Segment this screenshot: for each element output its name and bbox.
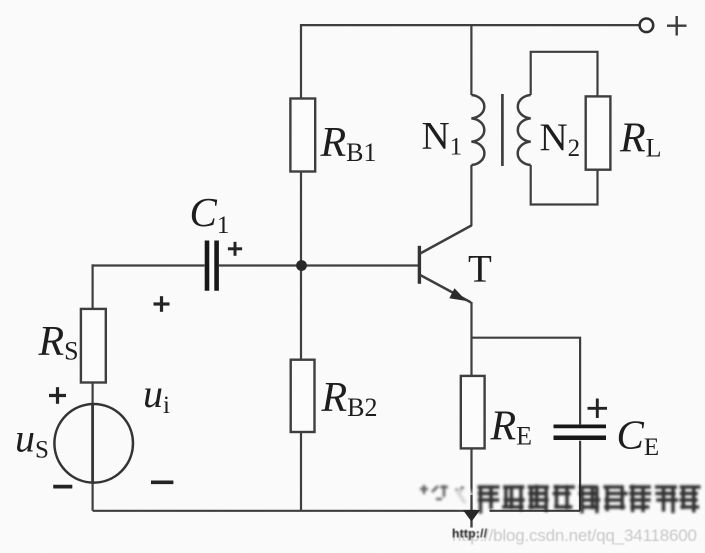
terminal output circle (640, 19, 654, 33)
wire N1 bottom stem to collector (470, 165, 472, 226)
wire RB2 bottom stem (300, 432, 302, 511)
wire emitter down stem (470, 302, 472, 376)
wire N2 loop (531, 52, 598, 205)
transistor T emitter stroke (420, 275, 471, 302)
source uS circle (54, 404, 133, 483)
resistor RB1 (290, 99, 315, 172)
resistor RE (461, 376, 485, 449)
watermark url light (452, 526, 697, 545)
watermark chinese blurred band (420, 485, 701, 514)
ground arrow redraw (463, 510, 480, 522)
transistor T base bar (418, 246, 421, 284)
wire bottom rail right (490, 510, 581, 512)
wire RB1 bottom stem to base node (300, 172, 302, 266)
wire RB2 top stem (300, 266, 302, 360)
transistor T emitter arrow (449, 288, 466, 301)
wire emitter junction to CE (472, 338, 581, 425)
wire top rail (301, 24, 639, 26)
plus sign uS top (49, 387, 66, 404)
transistor T collector stroke (420, 225, 471, 253)
plus sign at C1 (228, 242, 242, 256)
resistor RB2 (291, 360, 315, 432)
plus sign ui top (154, 296, 170, 312)
plus sign at CE (588, 399, 608, 419)
source uS vertical diameter wire (91, 405, 94, 483)
resistor RL (586, 96, 611, 169)
minus sign ui bottom (151, 480, 173, 484)
capacitor CE plates (554, 426, 607, 437)
wire RB1 top stem (300, 24, 302, 99)
ground symbol (463, 510, 480, 522)
wire N1 top stem (470, 24, 472, 95)
ground stem redraw (470, 495, 472, 528)
wire CE bottom stem (579, 441, 581, 511)
transformer core bar (501, 94, 504, 166)
watermark white stamp blob over rail (448, 488, 474, 508)
wire bottom rail left (93, 510, 477, 512)
resistor RS (81, 309, 106, 383)
plus sign at output terminal (667, 16, 687, 36)
wire C1 right segment to base (219, 264, 419, 266)
capacitor C1 plates (207, 241, 217, 291)
wire RE bottom stem to ground (470, 448, 472, 527)
transformer N1 winding (471, 95, 484, 165)
transformer N2 winding (518, 95, 531, 165)
node base junction dot (296, 260, 307, 271)
minus sign uS bottom (53, 485, 72, 489)
wire C1 left segment (92, 264, 205, 266)
wire left column (source branch) (91, 264, 93, 510)
